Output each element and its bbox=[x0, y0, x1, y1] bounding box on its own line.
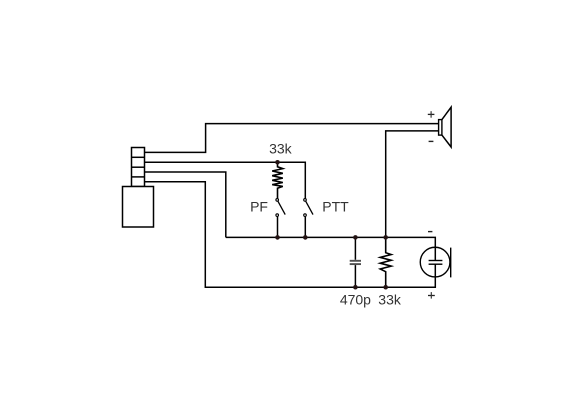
node A top of R1 bbox=[275, 160, 280, 165]
wire pin2 to resistor node and PTT switch bbox=[145, 162, 306, 198]
resistor R2 33k bbox=[380, 237, 391, 287]
switch PTT bbox=[304, 199, 313, 217]
label + speaker positive bbox=[428, 111, 435, 118]
label - speaker negative bbox=[429, 140, 434, 142]
svg-text:470p: 470p bbox=[340, 291, 371, 307]
node PTT on top bus bbox=[303, 235, 308, 240]
connector J1 body bbox=[123, 187, 154, 228]
wire top bus to microphone - terminal bbox=[226, 237, 435, 260]
resistor R1 33k bbox=[272, 162, 283, 198]
switch PF bbox=[276, 199, 285, 217]
node C1 bottom bbox=[353, 285, 358, 290]
node R2 bottom bbox=[383, 285, 388, 290]
node R2 top bbox=[383, 235, 388, 240]
wire speaker - terminal down to top bus bbox=[386, 131, 439, 238]
node PF on top bus bbox=[275, 235, 280, 240]
svg-text:PTT: PTT bbox=[322, 199, 349, 215]
wire PTT switch to top bus bbox=[304, 217, 306, 238]
wire pin4 along bottom bus to microphone + terminal bbox=[145, 182, 436, 288]
wire pin3 down to top bus bbox=[145, 172, 226, 237]
wire PF switch to top bus bbox=[277, 217, 279, 238]
capacitor C1 470p bbox=[350, 237, 361, 287]
label - microphone negative bbox=[428, 231, 432, 233]
svg-text:33k: 33k bbox=[269, 141, 293, 157]
connector J1 pin stack bbox=[132, 148, 145, 187]
wire pin1 to speaker + terminal bbox=[145, 124, 439, 153]
svg-text:PF: PF bbox=[250, 199, 268, 215]
microphone MK1 bbox=[420, 247, 450, 277]
speaker LS1 bbox=[439, 107, 452, 147]
label + microphone positive bbox=[428, 292, 435, 299]
svg-text:33k: 33k bbox=[378, 291, 402, 307]
node C1 top bbox=[353, 235, 358, 240]
